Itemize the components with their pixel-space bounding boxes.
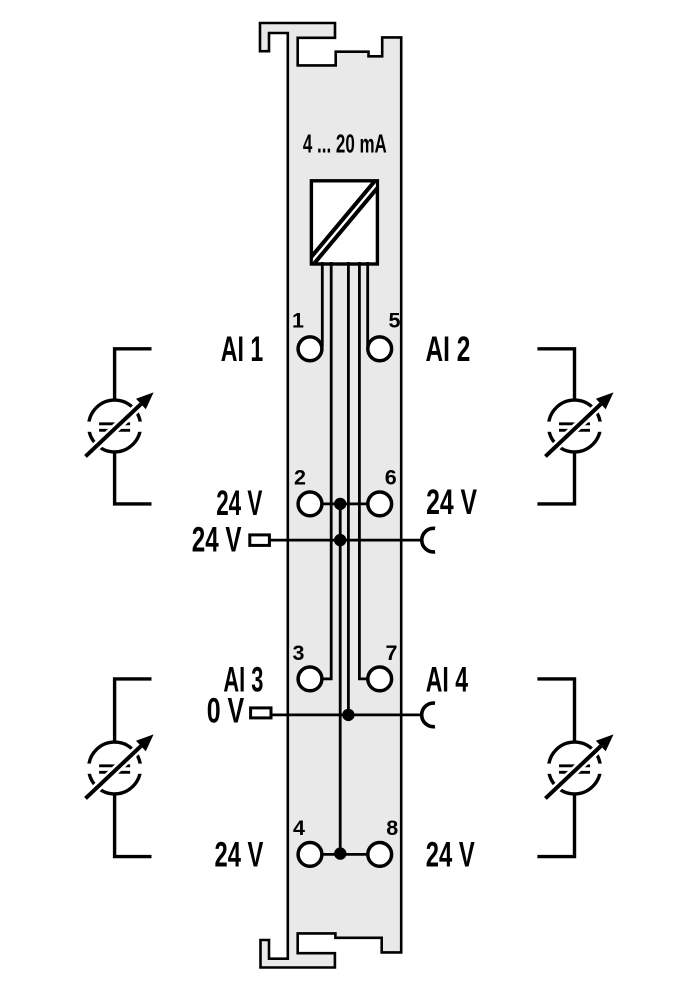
terminal 6 xyxy=(368,492,392,516)
svg-text:7: 7 xyxy=(386,641,398,665)
wire terminal 2 to terminal 6 xyxy=(322,502,368,505)
svg-text:24 V: 24 V xyxy=(215,835,264,875)
svg-text:1: 1 xyxy=(292,308,304,332)
wire 24V rail xyxy=(271,539,422,542)
wire box to terminal 1 xyxy=(321,262,324,347)
wire terminal 4 to terminal 8 xyxy=(322,853,368,856)
svg-text:AI 1: AI 1 xyxy=(221,329,263,369)
connector socket 24V xyxy=(422,528,435,552)
junction node 24V at terminals 4-8 xyxy=(334,847,346,859)
current source G3 bracket xyxy=(115,679,152,857)
converter U1 xyxy=(311,181,377,264)
wire box to terminal 5 xyxy=(366,262,369,347)
current source G2 xyxy=(545,392,614,456)
terminal 5 xyxy=(368,337,392,361)
terminal 3 xyxy=(298,667,322,691)
svg-text:2: 2 xyxy=(294,466,306,490)
junction node 0V rail xyxy=(342,709,354,721)
svg-text:4 ... 20 mA: 4 ... 20 mA xyxy=(303,128,387,158)
svg-text:24 V: 24 V xyxy=(426,482,477,522)
wire box to terminal 3 xyxy=(322,262,331,679)
svg-text:6: 6 xyxy=(385,466,397,490)
svg-text:AI 2: AI 2 xyxy=(426,329,471,369)
converter diagonal xyxy=(310,181,379,264)
current source G1 bracket xyxy=(115,349,152,504)
svg-text:8: 8 xyxy=(386,816,398,840)
current source G3 xyxy=(85,734,154,798)
svg-text:3: 3 xyxy=(293,641,305,665)
svg-text:24 V: 24 V xyxy=(192,520,242,560)
connector plug 0V xyxy=(251,708,271,718)
module body xyxy=(260,23,401,968)
current source G4 bracket xyxy=(537,679,574,857)
svg-text:0 V: 0 V xyxy=(207,690,245,730)
connector socket 0V xyxy=(422,703,435,727)
terminal 2 xyxy=(298,492,322,516)
current source G4 xyxy=(545,734,614,798)
wire box to 0V node xyxy=(347,262,350,715)
junction node 24V rail xyxy=(334,534,346,546)
connector plug 24V xyxy=(250,535,270,546)
svg-text:24 V: 24 V xyxy=(216,483,262,523)
current source G2 bracket xyxy=(537,349,574,504)
terminal 1 xyxy=(298,337,322,361)
wire 24V bus vertical xyxy=(339,504,342,855)
terminal 8 xyxy=(368,843,392,867)
svg-text:4: 4 xyxy=(293,816,305,840)
current source G1 xyxy=(85,392,154,456)
terminal 4 xyxy=(298,843,322,867)
terminal 7 xyxy=(368,667,392,691)
svg-text:24 V: 24 V xyxy=(426,835,475,875)
svg-text:AI 4: AI 4 xyxy=(426,659,468,699)
wire 0V rail xyxy=(272,714,421,717)
wire box to terminal 7 xyxy=(359,262,367,679)
junction node 24V at terminals 2-6 xyxy=(334,498,346,510)
svg-text:5: 5 xyxy=(389,308,401,332)
